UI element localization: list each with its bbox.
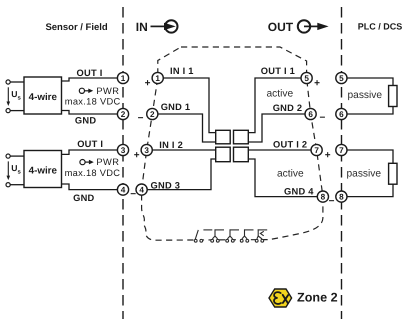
svg-text:GND 1: GND 1 xyxy=(161,102,191,112)
DIP switch S2 xyxy=(211,229,224,242)
svg-text:7: 7 xyxy=(339,146,344,155)
terminal 5 (PLC side) xyxy=(336,72,347,83)
svg-text:−: − xyxy=(130,189,136,200)
svg-text:GND 3: GND 3 xyxy=(151,181,181,191)
svg-text:5: 5 xyxy=(339,74,344,83)
svg-text:3: 3 xyxy=(144,146,149,155)
terminal 1 (device input) xyxy=(152,72,163,83)
wire OUT I ch2: 4-wire box to terminal 3 xyxy=(62,150,118,154)
svg-text:GND 2: GND 2 xyxy=(273,103,303,113)
PWR symbol ch2 xyxy=(80,160,94,165)
DIP switch S1 (open) xyxy=(194,230,212,243)
svg-text:8: 8 xyxy=(321,192,326,201)
wire OUT I ch1: 4-wire box to terminal 1 xyxy=(62,78,118,81)
svg-text:4-wire: 4-wire xyxy=(29,92,58,103)
svg-text:max.18 VDC: max.18 VDC xyxy=(65,96,121,106)
svg-text:max.18 VDC: max.18 VDC xyxy=(65,168,121,178)
svg-text:2: 2 xyxy=(150,110,155,119)
svg-text:passive: passive xyxy=(347,169,382,180)
IN direction symbol xyxy=(151,20,178,32)
wire GND 3: terminal 4 to transformer xyxy=(147,159,216,190)
svg-text:passive: passive xyxy=(348,90,383,101)
svg-text:OUT I: OUT I xyxy=(77,139,103,149)
wire: source ch1 top to 4-wire box xyxy=(10,81,24,83)
wire GND 2: transformer to terminal 6 xyxy=(248,114,305,142)
load resistor R2 (passive input) xyxy=(389,163,397,184)
terminal 7 (device output) xyxy=(311,144,322,155)
Ex hazardous area logo xyxy=(269,289,292,307)
isolation transformer block xyxy=(216,130,249,161)
wire GND ch1: 4-wire box to terminal 2 xyxy=(62,111,118,115)
device/PLC boundary line (dashed) xyxy=(341,7,343,319)
svg-text:3: 3 xyxy=(121,146,126,155)
svg-text:Zone 2: Zone 2 xyxy=(297,291,338,305)
terminal 8 (device output) xyxy=(317,191,328,202)
svg-text:−: − xyxy=(319,112,325,123)
wire: load resistor R1 to terminal 6 xyxy=(347,107,393,115)
DIP switch S3 xyxy=(226,229,239,242)
terminal 5 (device output) xyxy=(301,72,312,83)
svg-text:OUT I 2: OUT I 2 xyxy=(273,139,307,149)
svg-text:5: 5 xyxy=(304,74,309,83)
OUT direction symbol xyxy=(298,20,329,32)
voltage source Us ch2 xyxy=(7,161,22,180)
svg-text:IN I 1: IN I 1 xyxy=(170,66,194,76)
terminal 8 (PLC side) xyxy=(336,191,347,202)
device outline (dashed) xyxy=(142,47,323,240)
svg-text:6: 6 xyxy=(308,110,313,119)
wire: source ch1 bottom to 4-wire box xyxy=(10,110,24,112)
svg-text:PLC / DCS: PLC / DCS xyxy=(358,22,403,32)
svg-text:−: − xyxy=(329,196,335,207)
svg-text:1: 1 xyxy=(121,74,126,83)
wire GND ch2: 4-wire box to terminal 4 xyxy=(62,184,118,190)
wire: source ch2 bottom to 4-wire box xyxy=(10,184,24,186)
wire IN I 2: terminal 3 to transformer xyxy=(152,149,216,151)
svg-text:OUT I 1: OUT I 1 xyxy=(261,66,295,76)
svg-text:GND: GND xyxy=(73,193,94,203)
terminal 2 (device input) xyxy=(147,108,158,119)
wire: terminal 5 to load resistor R1 xyxy=(347,78,393,86)
svg-text:OUT: OUT xyxy=(268,20,294,34)
svg-text:2: 2 xyxy=(121,110,126,119)
svg-text:1: 1 xyxy=(155,74,160,83)
sensor block 4-wire ch1 xyxy=(24,77,62,114)
wire GND 1: terminal 2 to transformer xyxy=(158,114,216,142)
svg-text:4: 4 xyxy=(121,185,126,194)
svg-text:6: 6 xyxy=(339,110,344,119)
svg-text:8: 8 xyxy=(339,192,344,201)
terminal 7 (PLC side) xyxy=(336,144,347,155)
svg-text:+: + xyxy=(314,78,320,89)
svg-text:PWR: PWR xyxy=(96,157,119,167)
svg-text:−: − xyxy=(138,113,144,124)
svg-text:7: 7 xyxy=(314,146,319,155)
svg-text:Sensor / Field: Sensor / Field xyxy=(45,22,107,33)
svg-text:+: + xyxy=(145,78,151,89)
wire: terminal 7 to load resistor R2 xyxy=(347,150,393,163)
terminal 3 (device input) xyxy=(141,144,152,155)
source terminal ch1 top xyxy=(6,80,10,84)
PWR symbol ch1 xyxy=(79,88,93,93)
svg-text:GND 4: GND 4 xyxy=(284,187,314,197)
DIP switch S5 xyxy=(255,229,267,242)
load resistor R1 (passive input) xyxy=(389,86,397,107)
source terminal ch2 top xyxy=(6,154,10,158)
source terminal ch2 bottom xyxy=(6,183,10,187)
sensor block 4-wire ch2 xyxy=(24,151,62,188)
svg-text:IN: IN xyxy=(136,20,148,34)
svg-text:4-wire: 4-wire xyxy=(29,166,58,177)
source terminal ch1 bottom xyxy=(6,109,10,113)
terminal 6 (PLC side) xyxy=(336,108,347,119)
terminal 6 (device output) xyxy=(305,108,316,119)
terminal 3 (field side) xyxy=(117,144,128,155)
wire GND 4: transformer to terminal 8 xyxy=(248,159,317,197)
wire OUT I 2: transformer to terminal 7 xyxy=(248,149,311,151)
svg-text:active: active xyxy=(277,168,304,179)
field/device boundary line (dashed) xyxy=(122,7,124,319)
svg-text:active: active xyxy=(267,89,294,100)
svg-text:OUT I: OUT I xyxy=(77,68,103,78)
svg-text:4: 4 xyxy=(139,185,144,194)
wire IN I 1: terminal 1 to transformer xyxy=(163,78,216,133)
svg-text:+: + xyxy=(325,150,331,161)
svg-text:+: + xyxy=(134,150,140,161)
wire: load resistor R2 to terminal 8 xyxy=(347,184,393,196)
svg-text:IN I 2: IN I 2 xyxy=(159,140,183,150)
DIP switch S4 xyxy=(240,229,253,242)
wire OUT I 1: transformer to terminal 5 xyxy=(248,78,301,133)
wire: source ch2 top to 4-wire box xyxy=(10,155,24,157)
terminal 1 (field side) xyxy=(117,72,128,83)
terminal 4 (device input) xyxy=(136,184,147,195)
terminal 4 (field side) xyxy=(117,184,128,195)
voltage source Us ch1 xyxy=(7,87,22,106)
svg-text:GND: GND xyxy=(75,116,96,126)
terminal 2 (field side) xyxy=(117,108,128,119)
svg-text:PWR: PWR xyxy=(96,86,119,96)
